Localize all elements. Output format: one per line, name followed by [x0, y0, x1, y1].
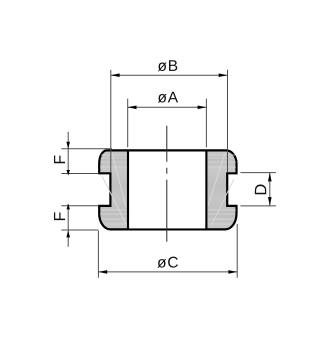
F top arrow at upper ext	[66, 142, 70, 149]
dimension D (right side groove width)	[240, 173, 276, 206]
oA arrow right	[198, 106, 207, 110]
oB extension line left	[110, 70, 112, 173]
F top extension line upper	[61, 148, 112, 150]
D extension line top	[240, 172, 276, 174]
F top arrow at lower ext	[67, 170, 70, 176]
dimension oB	[111, 70, 228, 173]
subtle rubber hatch texture	[100, 155, 236, 224]
dimension F top (upper flange thickness)	[61, 132, 112, 174]
dimension oA	[128, 99, 207, 148]
label oC	[157, 257, 178, 268]
D extension line bottom	[240, 205, 276, 207]
oA dimension line	[128, 106, 207, 108]
oB extension line right	[227, 70, 229, 173]
F top extension line lower	[61, 173, 98, 175]
label oA	[158, 92, 178, 103]
dimension F bottom (lower flange thickness)	[61, 204, 98, 247]
F bottom extension line lower	[61, 229, 98, 231]
oB arrow right	[219, 73, 228, 77]
oC arrow left	[98, 270, 107, 274]
D arrow top	[268, 173, 272, 182]
bore wall left	[127, 150, 129, 229]
oB dimension line	[111, 74, 228, 76]
label F bottom	[54, 212, 65, 220]
F top dimension line	[67, 132, 69, 174]
oA extension line right	[205, 99, 207, 148]
oA extension line left	[127, 99, 129, 148]
F bottom arrow at upper ext	[67, 204, 70, 210]
label F top	[54, 155, 65, 163]
oA arrow left	[128, 106, 137, 110]
oB arrow left	[111, 73, 120, 77]
F bottom dimension line	[67, 204, 69, 247]
D dimension line	[269, 173, 271, 206]
centerline (vertical dash-dot)	[166, 126, 168, 242]
oC dimension line	[98, 271, 237, 273]
F bottom arrow at lower ext	[66, 230, 70, 237]
label D	[255, 185, 266, 195]
bore wall right	[205, 150, 207, 229]
oC extension line right	[236, 224, 238, 278]
grommet body (section outline, gray fill)	[99, 150, 236, 229]
D arrow bottom	[268, 197, 272, 206]
label oB	[158, 60, 177, 71]
oC extension line left	[97, 231, 99, 278]
oC arrow right	[228, 270, 237, 274]
F bottom extension line upper	[61, 205, 98, 207]
bore (inner hole, white)	[129, 152, 205, 229]
dimension oC	[98, 224, 237, 278]
